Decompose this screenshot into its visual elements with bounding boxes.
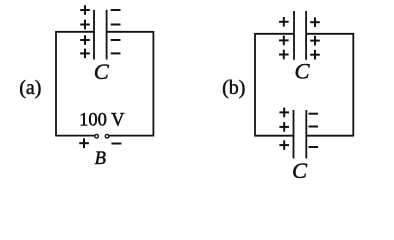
top capacitor C (b) right plate [305,11,307,60]
wire: circuit b right edge [352,33,354,137]
top capacitor C (b) left plate [293,11,295,60]
minus sign at battery negative terminal [111,143,121,145]
wire: circuit b bottom-left segment [255,135,294,137]
wire: circuit b left edge [254,33,256,137]
battery B terminal right circle [105,134,109,138]
plus charges on left plate of bottom capacitor (b) [279,108,289,150]
wire: circuit b bottom-right segment [306,135,353,137]
capacitor C (a) right plate [106,10,108,60]
wire: circuit a top-right segment [107,31,154,33]
bottom capacitor C (b) left plate [293,110,295,158]
wire: circuit a bottom-left segment to battery terminal [56,135,94,137]
minus charges on right plate of bottom capacitor (b) [309,114,319,147]
plus charges on left plate of C (a) [80,5,90,58]
svg-text:100 V: 100 V [79,111,125,131]
svg-text:C: C [292,158,308,179]
plus sign at battery positive terminal [79,138,89,148]
wire: circuit a bottom-right segment from battery terminal [109,135,153,137]
capacitor C (a) left plate [93,10,95,60]
plus charges on left plate of top capacitor (b) [279,17,289,59]
wire: circuit b top-left segment [255,33,294,35]
bottom capacitor C (b) right plate [305,110,307,158]
wire: circuit a right edge [152,31,154,136]
svg-text:C: C [94,59,110,84]
battery B terminal left circle [95,134,99,138]
wire: circuit b top-right segment [306,33,353,35]
wire: circuit a top-left segment [56,31,94,33]
wire: circuit a left edge [55,31,57,136]
svg-text:B: B [95,149,106,169]
svg-text:(a): (a) [19,77,41,99]
svg-text:(b): (b) [222,77,245,99]
plus charges on right plate of top capacitor (b) [310,17,320,59]
minus charges on right plate of C (a) [111,10,121,53]
svg-text:C: C [294,58,310,83]
